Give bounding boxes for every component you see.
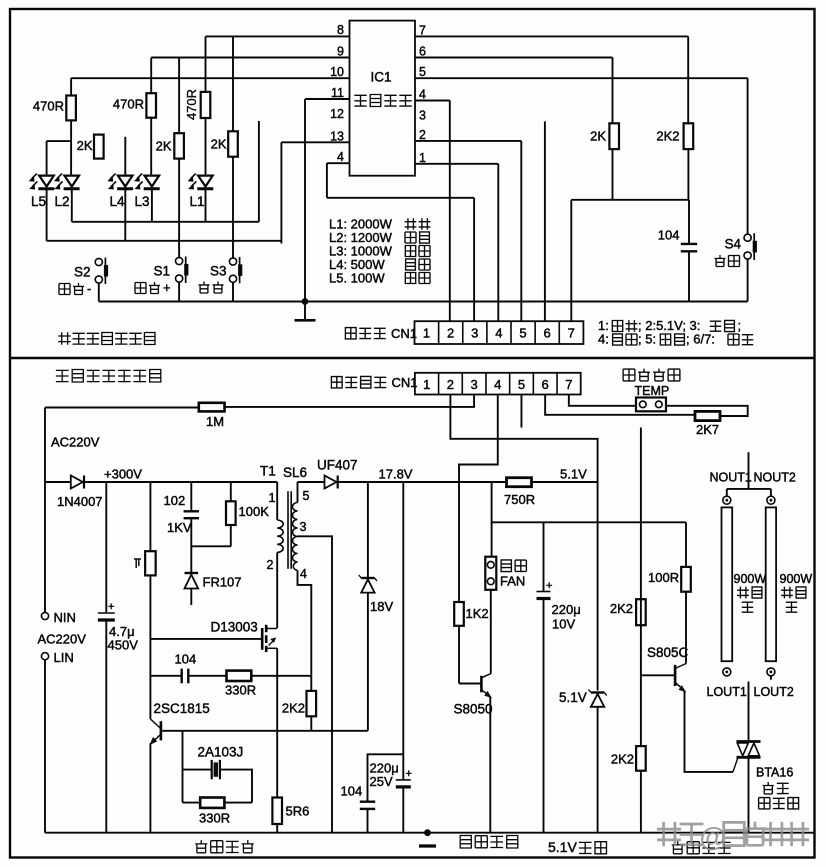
wire pin13 vertical to LED cathode line2 — [280, 142, 282, 243]
resistor R7 2K — [609, 123, 619, 149]
svg-text:104: 104 — [341, 784, 363, 799]
capacitor C3 102 1KV — [184, 511, 199, 518]
svg-text:2K: 2K — [77, 138, 93, 153]
svg-text:1: 1 — [419, 151, 426, 165]
svg-text:L2: L2 — [55, 194, 70, 209]
svg-text:+: + — [163, 280, 171, 295]
label 可控硅 — [759, 798, 799, 809]
svg-text:S2: S2 — [74, 265, 91, 280]
wire pin8 horizontal — [206, 35, 350, 37]
svg-text:4: 4 — [495, 326, 502, 341]
wire C6 to R11 — [189, 675, 227, 677]
wire CN1 pin6 vertical stub — [544, 121, 546, 321]
wire FR107 anode stub — [190, 589, 192, 606]
label 湿度检测 — [623, 369, 680, 381]
rail ground mark — [419, 844, 436, 847]
resistor R1 470R — [66, 96, 76, 121]
wire pin13 horizontal — [281, 141, 349, 143]
svg-text:5: 5 — [419, 65, 426, 79]
wire 5.1V rail — [532, 481, 598, 483]
svg-text:330R: 330R — [225, 683, 256, 698]
svg-text:1M: 1M — [206, 414, 224, 429]
wire temp-sense node line — [571, 199, 689, 201]
IC1 label 控制电路 — [354, 95, 411, 107]
svg-text:102: 102 — [164, 493, 186, 508]
terminal LOUT1 — [723, 668, 731, 676]
svg-text:750R: 750R — [504, 492, 535, 507]
capacitor C1 104 — [681, 244, 697, 251]
wire cap C7 bottom — [543, 599, 545, 833]
diode D2 FR107 — [185, 573, 199, 589]
resistor R19 100R — [681, 567, 691, 592]
svg-text:7: 7 — [565, 377, 572, 392]
wire pin2 horizontal — [415, 140, 521, 142]
svg-text:2K2: 2K2 — [610, 601, 633, 616]
svg-text:3: 3 — [419, 108, 426, 122]
label 风扇 — [501, 560, 526, 572]
wire pin1 horizontal — [415, 163, 498, 165]
wire LIN to common rail — [44, 660, 46, 833]
capacitor C5 104 — [360, 802, 375, 809]
wire pin10 horizontal — [71, 77, 349, 79]
diode D1 1N4007 — [71, 476, 84, 489]
capacitor C6 104 — [182, 669, 189, 684]
wire pin1 drop to CN1 pin4 — [497, 164, 499, 321]
wire zener D5 to rail — [597, 707, 599, 833]
capacitor C4 220u 25V — [396, 768, 412, 787]
wire pin4-right horizontal — [415, 100, 450, 102]
svg-text:2: 2 — [267, 558, 274, 572]
wire fan riser — [491, 522, 493, 556]
wire triac MT1 to rail — [748, 757, 750, 832]
svg-text:6: 6 — [419, 45, 426, 59]
svg-text:8: 8 — [337, 23, 344, 37]
wire LOUT bus to triac — [748, 682, 750, 742]
svg-text:1: 1 — [269, 491, 276, 505]
svg-text:1: 1 — [423, 326, 430, 341]
svg-text:4: 4 — [300, 567, 307, 581]
switch S4 — [744, 233, 757, 260]
zener D5 5.1V — [589, 690, 607, 707]
wire pin4-left horizontal — [327, 162, 350, 164]
wire 1K2 to base — [458, 626, 460, 684]
label S2 温度- — [59, 283, 84, 295]
resistor R5 2K — [174, 133, 184, 158]
svg-text:FAN: FAN — [500, 574, 525, 589]
zener D4 18V — [359, 575, 377, 593]
section label 加热电路 — [672, 841, 731, 854]
svg-text:4: 4 — [494, 377, 501, 392]
wire R9 bottom to gate node — [149, 575, 151, 719]
wire 2K2b top — [640, 675, 642, 746]
svg-text:LOUT2: LOUT2 — [754, 685, 794, 699]
switch S2 — [95, 258, 108, 285]
svg-text:100R: 100R — [648, 570, 679, 585]
wire pin4-right drop to CN1 pin2 — [449, 101, 451, 322]
wire to NIN terminal — [44, 482, 46, 612]
wire pin7 drop to R8 2K2 — [687, 36, 689, 123]
svg-text:1: 1 — [423, 377, 430, 392]
resistor R8 2K2 — [684, 123, 694, 149]
wire T1 pin3 tap — [298, 536, 333, 832]
svg-text:6: 6 — [544, 326, 551, 341]
terminal NOUT2 — [767, 496, 775, 504]
wire pin4-left vertical — [326, 163, 328, 198]
wire node to CN1 pin7 — [570, 200, 572, 321]
svg-text:L5: L5 — [31, 194, 46, 209]
wire 5R6 bottom — [276, 824, 278, 833]
transistor Q2 2SC1815 — [150, 719, 161, 744]
resistor R10 100K — [226, 501, 236, 525]
wire LED cathode line1 — [72, 221, 259, 223]
wire pin8 drop to R6 2K — [232, 36, 234, 131]
junction dot rail — [424, 829, 431, 836]
wire R3 bottom to LED L1 — [205, 118, 207, 176]
wire L5 top tee — [47, 140, 72, 142]
capacitor C7 220u 10V — [537, 580, 553, 599]
svg-text:LIN: LIN — [54, 650, 74, 665]
triac Q5 BTA16 — [737, 742, 761, 758]
svg-text:5: 5 — [518, 377, 525, 392]
wire common rail — [45, 832, 814, 834]
wire R6 2K to switch S3 — [232, 157, 234, 258]
svg-text:25V: 25V — [370, 774, 393, 789]
wire 2K2 R12 bottom — [310, 716, 312, 731]
resonator X1 2A103J — [212, 760, 220, 779]
wire S805C base line — [641, 674, 674, 676]
svg-text:2K: 2K — [590, 129, 606, 144]
resistor R14 5R6 — [272, 798, 282, 825]
svg-text:AC220V: AC220V — [38, 632, 87, 647]
wire pin9 horizontal — [151, 57, 349, 59]
wire resonator left riser — [182, 731, 184, 770]
junction dot ground — [302, 298, 309, 305]
resistor R6 2K — [228, 131, 238, 156]
svg-text:2K: 2K — [156, 139, 172, 154]
wire resonator left drop — [182, 770, 184, 803]
svg-text:900W: 900W — [734, 572, 767, 586]
svg-text:L5. 100W: L5. 100W — [329, 271, 385, 286]
wire cap C2 bottom — [105, 620, 107, 833]
wire L1 cathode — [205, 190, 207, 222]
connector CN1 mainboard — [415, 373, 581, 395]
wire S1 to ground bus — [178, 283, 180, 302]
wire MOSFET source down — [276, 648, 278, 797]
terminal LOUT2 — [767, 668, 775, 676]
resistor R11 330R — [227, 671, 252, 681]
wire L5 cathode — [46, 190, 48, 241]
wire CN1-3 start line to 1M — [225, 395, 475, 407]
wire S2 to ground bus — [98, 284, 100, 302]
label R9 W — [134, 559, 141, 568]
wire pin7 horizontal — [415, 35, 688, 37]
wire L3 cathode — [151, 190, 153, 222]
resistor R20 2K2 — [636, 746, 646, 771]
svg-text:2K2: 2K2 — [282, 701, 305, 716]
title 面板控制电路图 — [58, 332, 155, 345]
wire TEMP right loop — [666, 406, 748, 416]
terminal NOUT1 — [723, 496, 731, 504]
LED L1 — [189, 174, 214, 189]
wire neutral to rectifier — [45, 481, 71, 483]
svg-text:@: @ — [700, 822, 726, 852]
wire cap C5 link — [368, 754, 404, 801]
wire LOUT2 stub — [770, 676, 772, 680]
wire LED cathode line2 — [47, 240, 282, 242]
heater tube 900W 2 — [766, 507, 776, 661]
wire pin9 drop to R2 — [150, 58, 152, 94]
svg-text:4:: 4: — [598, 332, 609, 347]
section label 开关电源 — [195, 840, 254, 853]
wire AC left vertical — [44, 408, 46, 483]
wire CN1-7 to TEMP — [569, 395, 636, 406]
svg-text:3: 3 — [300, 520, 307, 534]
wire pin6 drop to R7 2K — [612, 58, 614, 124]
svg-text:NOUT2: NOUT2 — [754, 471, 796, 485]
capacitor C2 4.7u 450V electrolytic — [98, 601, 115, 620]
wire pin6 horizontal — [415, 57, 613, 59]
transistor Q4 S805C — [675, 664, 686, 692]
svg-text:220μ: 220μ — [552, 602, 581, 617]
wire cap C5 bottom — [367, 809, 369, 833]
svg-text:BTA16: BTA16 — [756, 766, 793, 780]
wire zener D4 top — [367, 482, 369, 577]
svg-text:12: 12 — [330, 107, 344, 121]
svg-text:S805C: S805C — [647, 645, 689, 660]
wire resonator left — [183, 769, 212, 771]
wire R10 top — [230, 482, 232, 501]
wire R2 bottom to LED L3 — [150, 118, 152, 176]
LED L2 — [55, 174, 80, 189]
wire 2K2 R12 top — [310, 675, 312, 691]
LED L4 — [108, 174, 133, 189]
wire pin4-left drop to CN1 pin3 — [473, 198, 475, 321]
resistor 1M — [199, 403, 225, 412]
wire zener D4 anode to base line — [367, 593, 369, 731]
resistor R9 fuse W — [145, 551, 156, 575]
svg-text:3: 3 — [471, 326, 478, 341]
svg-text:470R: 470R — [33, 99, 64, 114]
svg-text:+: + — [108, 601, 114, 613]
terminal NIN — [41, 612, 48, 619]
wire R8 2K2 bottom — [687, 149, 689, 200]
svg-text:S4: S4 — [724, 237, 741, 252]
svg-text:L4: L4 — [110, 194, 126, 209]
svg-text:IC1: IC1 — [371, 70, 392, 85]
ground symbol — [295, 302, 316, 321]
resistor R2 470R — [146, 93, 156, 118]
svg-text:UF407: UF407 — [317, 458, 358, 473]
transformer T1 core — [288, 491, 291, 569]
svg-text:T1: T1 — [260, 464, 276, 479]
svg-text:5: 5 — [519, 326, 526, 341]
wire cap C3 top — [190, 482, 192, 511]
svg-text:18V: 18V — [370, 599, 393, 614]
transformer T1 primary — [277, 482, 283, 628]
wire cap C1 bottom — [688, 251, 690, 301]
svg-text:+300V: +300V — [104, 467, 142, 482]
svg-text:5R6: 5R6 — [286, 804, 310, 819]
svg-text:5.1V: 5.1V — [559, 690, 587, 705]
svg-text:FR107: FR107 — [203, 575, 242, 590]
svg-text:2A103J: 2A103J — [198, 745, 244, 760]
panel divider line — [9, 357, 815, 359]
wire CN1-2 to 5.1V — [450, 395, 597, 483]
svg-text:S8050: S8050 — [454, 702, 493, 717]
wire to FR107 — [190, 546, 192, 572]
resistor R15 750R — [507, 478, 532, 487]
wire ground bus — [99, 301, 748, 303]
svg-text:CN1: CN1 — [391, 326, 417, 341]
label S3 定时 — [199, 282, 224, 294]
svg-text:13: 13 — [330, 129, 344, 143]
wire pin11 horizontal — [305, 98, 350, 100]
wire R10 bottom — [230, 525, 232, 546]
wire NOUT bus — [727, 488, 771, 490]
wire CN1-6 to 2K7 — [545, 395, 695, 415]
switch S1 — [176, 257, 189, 284]
svg-text:2: 2 — [419, 128, 426, 142]
svg-text:17.8V: 17.8V — [379, 467, 413, 482]
transformer T1 secondary — [293, 482, 298, 570]
wire S4 to ground bus — [747, 260, 749, 302]
label S1 温度+ — [135, 282, 160, 294]
svg-text:5.1V: 5.1V — [548, 839, 577, 855]
svg-text:L3: L3 — [135, 194, 150, 209]
svg-text:5: 5 — [303, 489, 310, 503]
wire R1 bottom to LED L2 — [70, 120, 72, 175]
svg-text:L1: L1 — [190, 194, 205, 209]
svg-text:; 5:: ; 5: — [638, 332, 656, 347]
wire resonator right — [220, 770, 252, 803]
svg-text:900W: 900W — [780, 572, 813, 586]
wire L4 anode stub — [124, 137, 126, 176]
svg-text:2K2: 2K2 — [656, 129, 679, 144]
wire pin5 horizontal — [415, 77, 748, 79]
svg-text:+: + — [406, 768, 412, 780]
wire T1 pin4 bottom — [298, 570, 312, 674]
connector CN1 top panel — [415, 321, 584, 344]
title 控制主板电路图 — [56, 370, 161, 383]
wire +300V rail — [84, 481, 277, 483]
svg-text:AC220V: AC220V — [51, 435, 100, 450]
connector FAN — [485, 557, 496, 590]
svg-text:104: 104 — [175, 652, 197, 667]
wire pin2 drop to CN1 pin5 — [520, 141, 522, 321]
wire pin4-left route under IC — [327, 197, 474, 199]
svg-text:2SC1815: 2SC1815 — [154, 701, 210, 716]
wire snubber node — [191, 545, 231, 547]
label 双向 — [763, 782, 789, 794]
wire R5 2K to switch S1 — [178, 159, 180, 257]
wire R11 to pin4 node — [251, 675, 311, 677]
svg-text:104: 104 — [658, 228, 680, 243]
transistor Q3 S8050 — [481, 674, 491, 698]
wire S805C emitter to triac gate — [685, 692, 734, 772]
resistor R17 2K7 — [695, 411, 720, 420]
svg-text:7: 7 — [568, 326, 575, 341]
svg-text:4: 4 — [419, 88, 426, 102]
svg-text:6: 6 — [542, 377, 549, 392]
transistor Q1 D13003 MOSFET — [262, 625, 277, 652]
svg-text:S3: S3 — [210, 264, 227, 279]
svg-text:7: 7 — [419, 23, 426, 37]
svg-text:-: - — [87, 281, 91, 296]
svg-text:330R: 330R — [199, 811, 230, 826]
wire C6 104 left — [150, 675, 181, 677]
wire fan to S8050 collector — [490, 590, 492, 674]
watermark 头条@维修人家 — [657, 822, 809, 852]
wire cap C2 top — [105, 482, 107, 612]
wire pin10 drop to R1 — [70, 78, 72, 95]
IC U1 IC1 control circuit box — [350, 21, 416, 176]
label S4 开关 — [715, 255, 740, 267]
wire NOUT2 stub — [770, 489, 772, 496]
label 接主板 CN1 — [345, 328, 385, 339]
svg-text:CN1: CN1 — [392, 375, 418, 390]
svg-text:NOUT1: NOUT1 — [710, 471, 752, 485]
wire pin11 vertical to ground bus — [304, 99, 306, 302]
wire NOUT riser — [748, 452, 750, 489]
svg-text:D13003: D13003 — [211, 620, 258, 635]
svg-text:100K: 100K — [239, 504, 270, 519]
switch S3 — [229, 257, 242, 283]
wire L4 cathode — [124, 190, 126, 241]
wire S8050 emitter to rail — [489, 697, 491, 833]
wire cap C4 bottom — [402, 787, 404, 833]
wire TEMP sense vertical — [640, 428, 642, 676]
wire 100R to collector — [685, 592, 687, 664]
resistor R16 1K2 — [454, 602, 464, 626]
svg-text:2K2: 2K2 — [611, 752, 634, 767]
svg-text:2: 2 — [447, 326, 454, 341]
wire R9 top — [149, 482, 151, 551]
wire S8050 base line — [459, 683, 481, 685]
svg-text:1KV: 1KV — [167, 520, 192, 535]
wire pin9 drop to R5 2K — [178, 58, 180, 134]
svg-text:;: ; — [738, 318, 742, 333]
wire 2K2b bottom — [640, 771, 642, 833]
wire 330R left — [183, 802, 201, 804]
wire NOUT1 stub — [726, 489, 728, 496]
wire L5 anode — [46, 141, 48, 176]
wire AC line to 1M — [45, 407, 199, 409]
svg-text:SL6: SL6 — [283, 465, 307, 480]
svg-text:2K: 2K — [211, 137, 227, 152]
wire 5.1V zener line — [597, 482, 599, 691]
svg-text:2K7: 2K7 — [696, 422, 719, 437]
svg-text:470R: 470R — [184, 89, 199, 120]
wire 5.1V branch line — [492, 482, 686, 522]
svg-text:4: 4 — [337, 150, 344, 164]
svg-text:2: 2 — [447, 377, 454, 392]
wire 17.8V line — [338, 481, 507, 483]
svg-text:+: + — [546, 580, 552, 592]
svg-text:10: 10 — [330, 65, 344, 79]
svg-text:LOUT1: LOUT1 — [707, 685, 747, 699]
section label 风扇控制 — [460, 836, 518, 849]
wire cap C4 vertical — [402, 482, 404, 779]
wire triac gate diag — [733, 758, 738, 772]
wire pin8 drop to R3 — [205, 36, 207, 92]
heater tube 900W 1 — [722, 507, 733, 661]
wire L2 cathode — [71, 190, 73, 222]
wire pin12 vertical to LED cathode line — [258, 121, 260, 222]
resistor R18 2K2 — [636, 599, 646, 625]
svg-text:10V: 10V — [552, 617, 575, 632]
wire gate line — [150, 638, 261, 640]
svg-text:; 6/7:: ; 6/7: — [686, 332, 715, 347]
